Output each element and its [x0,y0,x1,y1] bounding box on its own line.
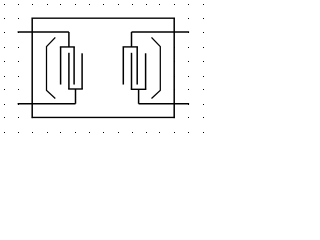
right IDT top finger b [136,47,138,85]
right IDT top stem [131,32,133,47]
left IDT top bus [60,46,75,48]
left IDT top stem [68,32,70,47]
left IDT bottom finger b [81,53,83,89]
left IDT bottom stem [75,89,77,104]
right IDT bottom finger b [145,53,147,89]
wire pin 2 (top-right) [132,31,190,33]
right IDT bottom finger a [131,53,133,90]
wire pin 1 (top-left) [18,31,69,33]
right IDT top finger a [122,47,124,85]
left IDT bottom finger a [68,53,70,89]
right IDT top bus [123,46,138,48]
left IDT top finger a [60,47,62,85]
wire pin 3 (bottom-left) [18,103,76,105]
left IDT top finger b [73,47,75,85]
right IDT bottom stem [138,89,140,103]
left reflector [47,37,56,98]
right IDT bottom bus [131,88,147,90]
wire pin 4 (bottom-right) [139,103,190,105]
device body box [31,18,175,119]
left IDT bottom bus [68,88,83,90]
right reflector [152,37,161,98]
